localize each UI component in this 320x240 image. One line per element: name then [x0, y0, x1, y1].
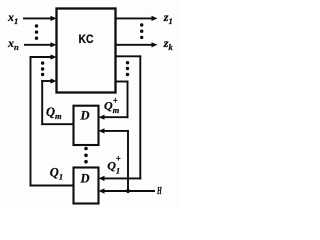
- wire Qm+ excitation: vertical: [127, 82, 129, 118]
- arrowhead Q1 feedback into KC: [51, 54, 57, 59]
- arrowhead H clock into FF2: [99, 188, 105, 193]
- wire Qm+ excitation: horizontal into FF1 D input: [103, 116, 128, 118]
- arrowhead xn into KC: [51, 42, 57, 47]
- wire Qm feedback: horizontal from FF1 output: [42, 123, 73, 125]
- svg-text:KC: KC: [79, 32, 94, 46]
- wire Q1+ excitation: right vertical: [139, 56, 141, 178]
- wire Q1 feedback: horizontal from FF2 output: [31, 185, 74, 187]
- wire clock: horizontal into FF1 clock: [103, 130, 128, 132]
- block KC (combinational logic): [57, 9, 116, 93]
- arrowhead Q1+ into FF2 D: [99, 176, 105, 181]
- wire Q1 feedback: horizontal into KC: [31, 56, 53, 58]
- svg-text:+: +: [113, 95, 118, 105]
- ellipsis x inputs: [35, 24, 38, 27]
- arrowhead x1 into KC: [51, 16, 57, 21]
- wire Qm feedback: vertical: [41, 81, 43, 124]
- arrowhead Qm+ into FF1 D: [99, 115, 105, 120]
- wire x1 input: [24, 17, 52, 19]
- svg-text:H: H: [156, 185, 162, 197]
- ellipsis z outputs: [140, 23, 143, 26]
- wire Qm+ excitation: horizontal from KC right: [116, 81, 128, 83]
- wire Q1+ excitation: horizontal into FF2 D input: [103, 177, 140, 179]
- svg-text:D: D: [80, 109, 90, 123]
- ellipsis Q feedbacks left: [41, 61, 44, 64]
- arrowhead z1: [152, 16, 158, 21]
- wire clock: vertical riser to FF1: [127, 131, 129, 191]
- arrowhead zk: [152, 42, 158, 47]
- ellipsis flip-flops: [84, 147, 88, 151]
- svg-text:+: +: [116, 153, 121, 163]
- wire zk output: [116, 44, 152, 46]
- flip-flop U2 (D, lower, Q1): [74, 168, 99, 204]
- wire xn input: [25, 44, 52, 46]
- wire Q1+ excitation: horizontal from KC right: [116, 55, 140, 57]
- wire z1 output: [116, 17, 152, 19]
- wire H clock input: [103, 190, 154, 192]
- wire Q1 feedback: left vertical: [30, 57, 32, 186]
- flip-flop U1 (D, upper, Qm): [74, 106, 99, 145]
- ellipsis Q+ excitations right: [126, 61, 129, 64]
- arrowhead clock into FF1: [99, 128, 105, 133]
- junction dot clock/H: [126, 189, 130, 193]
- arrowhead Qm feedback into KC: [51, 78, 57, 83]
- wire Qm feedback: horizontal into KC: [42, 80, 52, 82]
- svg-text:D: D: [80, 172, 90, 186]
